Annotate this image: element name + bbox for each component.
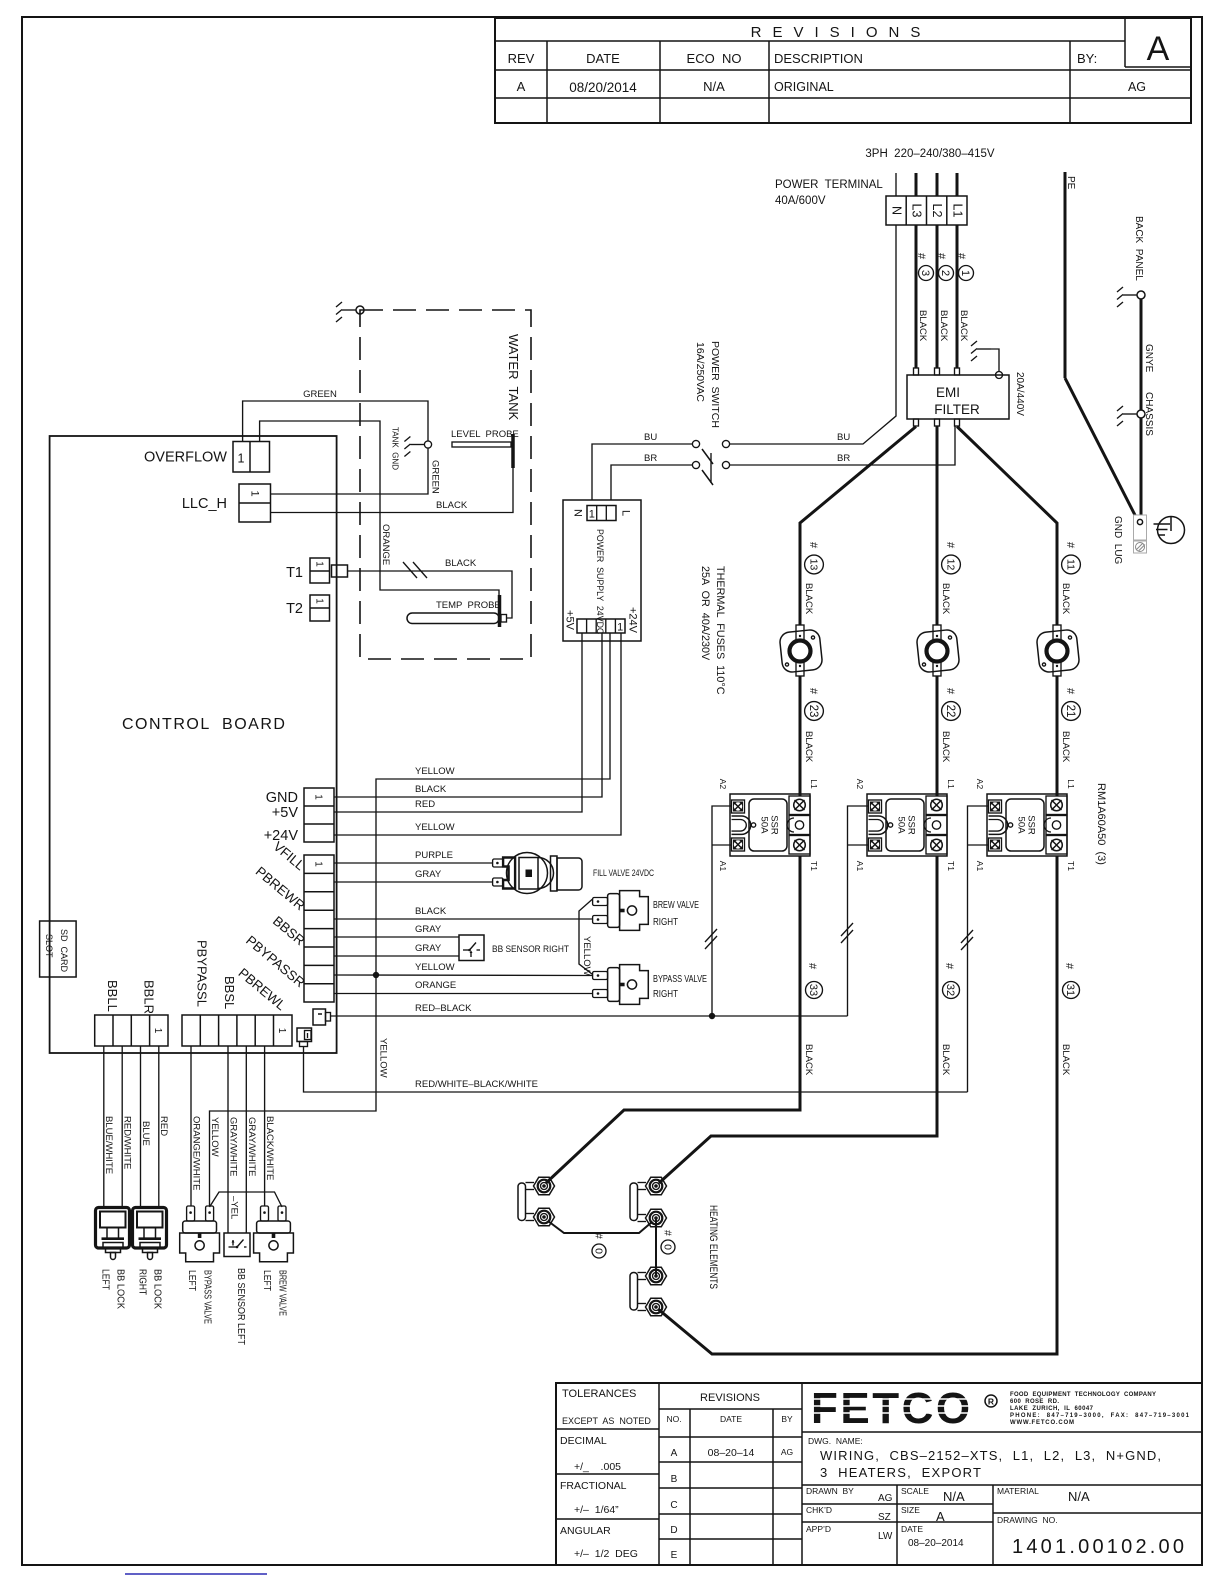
label YELLOW ps1 <box>415 766 455 777</box>
wire ORANGE/WHITE pbypassl <box>190 1046 192 1206</box>
svg-text:BLACK: BLACK <box>803 1044 814 1076</box>
wire element2 to element3 <box>655 1218 657 1276</box>
svg-text:3PH 220–240/380–415V: 3PH 220–240/380–415V <box>865 148 994 160</box>
wire yellow trapezoid jumper left valves <box>209 1192 282 1207</box>
heating element 3 <box>630 1267 667 1316</box>
gnd lug <box>1134 515 1147 553</box>
wire GREEN tank gnd to LLC_H <box>271 448 429 494</box>
wire YELLOW pbypassr to bypass valve right <box>334 974 593 977</box>
svg-text:WATER TANK: WATER TANK <box>506 334 521 421</box>
svg-text:#: # <box>807 688 819 695</box>
svg-text:A: A <box>1147 30 1170 68</box>
chassis ground symbol <box>1117 406 1137 426</box>
svg-text:LEFT: LEFT <box>99 1269 111 1290</box>
power switch S1 <box>692 440 729 485</box>
wire break marks SSR2 jumper <box>841 923 853 943</box>
heating element 2 <box>630 1177 667 1227</box>
svg-text:A: A <box>517 79 526 94</box>
svg-text:FETCO: FETCO <box>811 1384 973 1433</box>
wire SSR3 A2-A1 jumper down to red/white wire <box>967 806 988 1092</box>
wire number tag 31 <box>1060 963 1080 1076</box>
svg-text:YELLOW: YELLOW <box>377 1038 388 1078</box>
svg-text:BLACK: BLACK <box>1060 731 1071 763</box>
wire L2 incoming <box>936 173 939 196</box>
svg-text:RIGHT: RIGHT <box>653 988 678 1000</box>
connector LLC_H <box>239 484 271 522</box>
svg-text:+5V: +5V <box>564 610 576 631</box>
svg-text:BLACK: BLACK <box>1060 1044 1071 1076</box>
svg-text:BLACK: BLACK <box>958 310 969 342</box>
svg-text:REV: REV <box>508 51 535 66</box>
svg-text:SLOT: SLOT <box>44 934 54 958</box>
svg-text:1: 1 <box>276 1028 287 1034</box>
svg-text:DATE: DATE <box>586 51 620 66</box>
solenoid BB LOCK LEFT <box>95 1207 129 1259</box>
svg-text:DWG. NAME:: DWG. NAME: <box>808 1436 863 1446</box>
wire BU switch to power supply <box>592 444 692 500</box>
brew valve right <box>593 891 649 931</box>
wire break marks SSR3 jumper <box>961 930 973 950</box>
label BLACK/WHITE <box>264 1116 275 1180</box>
wire YELLOW brew to bypass jumper <box>579 899 593 975</box>
label GRAY bbsr1 <box>415 924 442 935</box>
label YELLOW jumper <box>581 936 592 976</box>
svg-text:DESCRIPTION: DESCRIPTION <box>774 51 863 66</box>
power supply U3 <box>563 500 641 641</box>
svg-text:3: 3 <box>919 270 931 276</box>
svg-text:RED/WHITE: RED/WHITE <box>121 1116 132 1169</box>
svg-text:TEMP PROBE: TEMP PROBE <box>436 600 501 611</box>
wire fuse 11 to SSR3 L1 <box>1056 676 1059 796</box>
svg-text:N/A: N/A <box>703 79 725 94</box>
wire number tag 13 <box>803 542 823 615</box>
label BLUE <box>140 1121 151 1146</box>
wire number tag 11 <box>1060 542 1080 615</box>
wire SSR3 T1 to heating element 3 <box>658 856 1057 1354</box>
svg-text:REVISIONS: REVISIONS <box>751 24 932 41</box>
svg-text:1: 1 <box>249 490 261 496</box>
svg-text:T2: T2 <box>286 601 303 617</box>
label BBSR <box>270 913 308 948</box>
svg-text:12: 12 <box>945 559 957 571</box>
wire RED/WHITE bbll <box>121 1046 123 1208</box>
svg-text:MATERIAL: MATERIAL <box>997 1486 1039 1496</box>
svg-text:GRAY: GRAY <box>415 943 442 954</box>
svg-text:0: 0 <box>592 1248 604 1254</box>
EMI chassis ground symbol <box>971 341 991 361</box>
svg-text:1: 1 <box>589 508 595 520</box>
wire BLUE/WHITE bbll <box>103 1046 105 1208</box>
wire SSR2 A2-A1 jumper down to red-black wire <box>847 806 868 1016</box>
svg-text:#: # <box>915 253 927 260</box>
connector VFILL..PBYPASSR 8 pos <box>304 855 334 1002</box>
svg-text:ECO NO: ECO NO <box>687 51 742 66</box>
wire chassis to gnd lug <box>1140 418 1143 519</box>
svg-text:BB LOCK: BB LOCK <box>114 1269 126 1309</box>
wire EMI to thermal fuse 11 <box>957 427 1057 626</box>
svg-text:TANK GND: TANK GND <box>391 427 400 470</box>
label BB LOCK LEFT <box>99 1269 126 1309</box>
svg-text:YELLOW: YELLOW <box>209 1117 220 1157</box>
svg-text:ANGULAR: ANGULAR <box>560 1525 611 1537</box>
label WATER TANK <box>506 334 521 421</box>
svg-text:23: 23 <box>807 705 819 718</box>
temp probe <box>407 595 507 627</box>
svg-text:EMI: EMI <box>936 385 960 400</box>
label CHASSIS <box>1143 392 1154 436</box>
label POWER TERMINAL 40A/600V <box>775 179 883 207</box>
label GND LUG <box>1112 516 1123 565</box>
wire GRAY/WHITE bbsl 2 <box>245 1046 247 1233</box>
label GRAY/WHITE 1 <box>227 1117 238 1176</box>
svg-text:BREW VALVE: BREW VALVE <box>276 1270 288 1316</box>
svg-text:08/20/2014: 08/20/2014 <box>569 80 637 95</box>
wire GRAY bbsr 1 <box>334 936 459 938</box>
svg-text:SIZE: SIZE <box>901 1505 920 1515</box>
svg-text:BR: BR <box>837 453 850 464</box>
label YELLOW bypass <box>415 962 455 973</box>
back panel ground symbol <box>1117 287 1137 307</box>
SD card slot <box>40 921 77 977</box>
level probe <box>452 434 513 468</box>
wire EMI to thermal fuse 13 <box>800 427 916 626</box>
svg-text:#: # <box>1064 542 1076 549</box>
wire SSR2 T1 to heating element 2 <box>659 856 937 1183</box>
SSR U5 RM1A60A50 <box>855 779 956 872</box>
label T2 <box>286 601 303 617</box>
label BB SENSOR LEFT <box>235 1268 247 1345</box>
label BLACK level probe <box>436 500 468 511</box>
label POWER SWITCH 16A/250VAC <box>694 341 721 428</box>
svg-text:GRAY/WHITE: GRAY/WHITE <box>246 1117 257 1176</box>
svg-text:BBLL: BBLL <box>105 980 120 1012</box>
svg-text:YELLOW: YELLOW <box>415 822 455 833</box>
wire fuse 12 to SSR2 L1 <box>936 676 939 796</box>
svg-text:GND: GND <box>266 790 298 806</box>
svg-text:#: # <box>1064 688 1076 695</box>
title block <box>556 1383 1202 1565</box>
wire BR switch to power supply <box>611 465 692 500</box>
svg-text:LEFT: LEFT <box>261 1270 273 1291</box>
back panel terminal circle <box>1137 291 1145 299</box>
svg-text:BLUE/WHITE: BLUE/WHITE <box>103 1116 114 1174</box>
connector T2 <box>310 595 330 621</box>
svg-text:BLACK: BLACK <box>917 310 928 342</box>
svg-text:YELLOW: YELLOW <box>415 766 455 777</box>
svg-text:RED: RED <box>415 799 435 810</box>
svg-text:33: 33 <box>807 984 819 996</box>
label BYPASS VALVE LEFT <box>186 1270 214 1324</box>
svg-text:11: 11 <box>1065 559 1077 570</box>
protective earth symbol <box>1154 517 1185 544</box>
wire PE vertical <box>1064 172 1067 378</box>
svg-text:BU: BU <box>644 432 657 443</box>
svg-text:+24V: +24V <box>627 607 639 634</box>
label FILL VALVE 24VDC <box>593 868 654 879</box>
label BLACK brew <box>415 906 447 917</box>
wire break marks T1 wire <box>403 562 427 578</box>
svg-text:FILTER: FILTER <box>934 402 980 417</box>
svg-text:FRACTIONAL: FRACTIONAL <box>560 1480 627 1492</box>
svg-text:BLACK: BLACK <box>445 558 477 569</box>
wire number tag 1 <box>955 253 974 281</box>
wire BLACK pbrewr to brew valve right <box>334 918 593 920</box>
dwg name block <box>806 1436 1184 1558</box>
label BREW VALVE RIGHT <box>653 899 699 928</box>
label YELLOW left valve <box>209 1117 220 1157</box>
svg-text:DRAWN BY: DRAWN BY <box>806 1486 854 1496</box>
svg-text:32: 32 <box>944 984 956 996</box>
svg-text:AG: AG <box>878 1493 893 1504</box>
BB sensor left <box>224 1233 250 1257</box>
wire N incoming <box>895 173 897 196</box>
wire L3 terminal to EMI filter <box>915 225 918 368</box>
wire GRAY bbsr 2 <box>334 955 459 957</box>
connector GND +5V +24V <box>304 788 334 842</box>
svg-text:#: # <box>935 253 947 260</box>
label OVERFLOW <box>144 449 227 465</box>
svg-text:REVISIONS: REVISIONS <box>700 1392 760 1404</box>
label 3PH 220-240/380-415V <box>865 148 994 160</box>
svg-text:#: # <box>944 542 956 549</box>
svg-text:BLACK: BLACK <box>1060 583 1071 615</box>
svg-text:A: A <box>671 1448 678 1459</box>
FETCO logo <box>808 1384 997 1433</box>
label PBYPASSL <box>194 940 209 1007</box>
wire BU switch to EMI <box>730 225 896 444</box>
wire L1 incoming <box>956 173 959 196</box>
label BREW VALVE LEFT <box>261 1270 289 1316</box>
wire GREEN overflow to tank gnd <box>243 401 428 442</box>
wire number tag 0 left <box>592 1233 606 1258</box>
svg-text:GREEN: GREEN <box>303 389 337 400</box>
svg-text:APP’D: APP’D <box>806 1524 831 1534</box>
label BBSL <box>222 976 237 1009</box>
wire break marks SSR1 jumper <box>705 929 717 949</box>
label BACK PANEL <box>1133 216 1144 281</box>
svg-text:THERMAL FUSES 110°C: THERMAL FUSES 110°C <box>714 566 726 695</box>
wire ORANGE to bypass valve right <box>334 992 593 994</box>
svg-text:22: 22 <box>944 705 956 718</box>
svg-text:SCALE: SCALE <box>901 1486 929 1496</box>
svg-text:BBLR: BBLR <box>141 980 156 1014</box>
wire RED bblr <box>158 1046 160 1208</box>
svg-text:GRAY: GRAY <box>415 869 442 880</box>
svg-text:#: # <box>943 963 955 970</box>
svg-text:TOLERANCES: TOLERANCES <box>562 1388 636 1400</box>
label BBLL <box>105 980 120 1012</box>
svg-text:+/– 1/2 DEG: +/– 1/2 DEG <box>574 1548 638 1560</box>
label LEVEL PROBE <box>451 429 519 440</box>
svg-text:BY: BY <box>781 1414 793 1424</box>
label GRAY fill <box>415 869 442 880</box>
svg-text:BLACK: BLACK <box>940 731 951 763</box>
svg-text:1: 1 <box>959 270 971 276</box>
svg-text:BY:: BY: <box>1077 51 1097 66</box>
svg-text:CHASSIS: CHASSIS <box>1143 392 1154 436</box>
svg-text:GREEN: GREEN <box>430 460 441 494</box>
label THERMAL FUSES 110C 25A OR 40A/230V <box>699 566 726 695</box>
svg-text:3 HEATERS, EXPORT: 3 HEATERS, EXPORT <box>820 1465 981 1480</box>
svg-text:L: L <box>620 510 632 516</box>
svg-text:20A/440V: 20A/440V <box>1014 372 1025 416</box>
svg-text:08–20–2014: 08–20–2014 <box>908 1538 964 1549</box>
svg-text:RED: RED <box>158 1116 169 1136</box>
label -YEL <box>228 1196 239 1219</box>
svg-text:#: # <box>661 1230 673 1236</box>
heating element 1 <box>518 1177 555 1226</box>
wire number tag 2 <box>935 253 954 281</box>
svg-text:GRAY: GRAY <box>415 924 442 935</box>
svg-text:BLACK: BLACK <box>940 583 951 615</box>
svg-text:WIRING, CBS–2152–XTS, L1, L: WIRING, CBS–2152–XTS, L1, L2, L3, N+GND, <box>820 1448 1161 1463</box>
svg-text:BU: BU <box>837 432 850 443</box>
svg-text:RED–BLACK: RED–BLACK <box>415 1003 472 1014</box>
wire PE diagonal to gnd lug <box>1065 378 1138 521</box>
svg-text:1: 1 <box>617 622 623 634</box>
wire number tag 23 <box>803 688 823 763</box>
svg-text:R: R <box>988 1397 994 1407</box>
svg-text:BB SENSOR LEFT: BB SENSOR LEFT <box>235 1268 247 1345</box>
svg-text:SD CARD: SD CARD <box>59 929 69 973</box>
label BU right <box>837 432 850 443</box>
svg-text:D: D <box>670 1525 677 1536</box>
svg-text:#: # <box>592 1233 604 1239</box>
label PBYPASSR <box>243 933 308 991</box>
svg-text:AG: AG <box>781 1447 793 1457</box>
control board outline <box>50 436 337 1053</box>
wire EMI to thermal fuse 12 <box>936 427 939 625</box>
wire RED +5v to power supply <box>334 633 582 812</box>
label GRAY/WHITE 2 <box>246 1117 257 1176</box>
svg-text:25A OR 40A/230V: 25A OR 40A/230V <box>699 566 711 661</box>
svg-text:A: A <box>936 1509 945 1524</box>
svg-text:08–20–14: 08–20–14 <box>708 1447 755 1459</box>
svg-text:BLACK: BLACK <box>415 784 447 795</box>
label TEMP PROBE <box>436 600 501 611</box>
label BLACK T1 wire <box>445 558 477 569</box>
label RM1A60A50 (3) <box>1095 783 1107 865</box>
label BLUE/WHITE <box>103 1116 114 1174</box>
svg-text:PURPLE: PURPLE <box>415 850 453 861</box>
wire SSR1 T1 to heating element 1 <box>546 856 800 1183</box>
wire RED-BLACK to SSR nodes <box>330 1015 847 1017</box>
svg-text:L3: L3 <box>910 204 924 218</box>
label PURPLE <box>415 850 453 861</box>
bypass valve left <box>180 1206 220 1262</box>
label PBREWR <box>253 864 308 914</box>
label BLACK ps <box>415 784 447 795</box>
svg-text:E: E <box>671 1550 678 1561</box>
wire L1 terminal to EMI filter <box>956 225 959 368</box>
svg-text:BLACK/WHITE: BLACK/WHITE <box>264 1116 275 1180</box>
label +24V <box>264 828 299 844</box>
svg-text:1: 1 <box>238 451 245 465</box>
chassis terminal circle <box>1137 410 1145 418</box>
label CONTROL BOARD <box>122 716 286 733</box>
label VFILL <box>270 839 308 874</box>
tank gnd terminal circle <box>424 441 431 448</box>
wire BLACK level probe to LLC_H <box>271 468 514 513</box>
wire BLUE bblr <box>139 1046 141 1208</box>
wire L3 incoming <box>915 173 918 196</box>
svg-text:N: N <box>890 206 904 215</box>
label GND <box>266 790 298 806</box>
label RED-BLACK <box>415 1003 472 1014</box>
thermal fuse F12 <box>916 625 960 676</box>
svg-text:YELLOW: YELLOW <box>581 936 592 976</box>
connector PBYPASSL BBSL PBREWL 6 pos <box>182 1015 292 1046</box>
wire number tag 21 <box>1060 688 1080 763</box>
wire GNYE back panel to chassis <box>1140 299 1143 410</box>
connector red/white small plug <box>297 1028 312 1047</box>
label BLACK wire L1 <box>958 310 969 342</box>
tank top ground terminal circle <box>356 306 364 314</box>
label GREEN vertical <box>430 460 441 494</box>
wire number tag 0 right <box>661 1230 675 1254</box>
connector BBLL BBLR 4 pos <box>95 1015 168 1046</box>
svg-text:N: N <box>572 509 584 517</box>
svg-text:BYPASS VALVE: BYPASS VALVE <box>653 973 707 985</box>
label ORANGE <box>380 524 391 565</box>
company info block <box>1010 1392 1190 1426</box>
connector T1 <box>310 558 348 583</box>
svg-text:31: 31 <box>1064 984 1076 996</box>
svg-text:L2: L2 <box>930 204 944 218</box>
wire BR switch to EMI <box>730 427 955 466</box>
wire number tag 33 <box>803 963 823 1076</box>
svg-text:POWER TERMINAL: POWER TERMINAL <box>775 179 883 191</box>
wire SSR1 A2-A1 jumper down to red-black node <box>712 806 732 1016</box>
label BB LOCK RIGHT <box>136 1269 163 1309</box>
wire number tag 32 <box>940 963 960 1076</box>
svg-text:LEVEL PROBE: LEVEL PROBE <box>451 429 519 440</box>
svg-text:1: 1 <box>152 1028 163 1034</box>
wire number tag 12 <box>940 542 960 615</box>
svg-text:BACK PANEL: BACK PANEL <box>1133 216 1144 281</box>
solenoid BB LOCK RIGHT <box>132 1207 166 1259</box>
svg-text:ORANGE/WHITE: ORANGE/WHITE <box>190 1116 201 1190</box>
BB sensor right <box>459 935 484 961</box>
label HEATING ELEMENTS <box>707 1205 719 1289</box>
wire GRAY/WHITE bbsl 1 <box>227 1046 229 1233</box>
svg-text:LEFT: LEFT <box>186 1270 198 1291</box>
label BU left <box>644 432 657 443</box>
svg-text:RM1A60A50 (3): RM1A60A50 (3) <box>1095 783 1107 865</box>
svg-text:LAKE ZURICH, IL 60047: LAKE ZURICH, IL 60047 <box>1010 1406 1094 1412</box>
junction node yellow <box>373 972 379 978</box>
svg-text:FILL VALVE 24VDC: FILL VALVE 24VDC <box>593 868 654 879</box>
svg-text:YELLOW: YELLOW <box>415 962 455 973</box>
wire element1 to element2 neutral jumper <box>548 1221 653 1233</box>
svg-text:OVERFLOW: OVERFLOW <box>144 449 227 465</box>
label BR right <box>837 453 850 464</box>
wire YELLOW common down left <box>209 975 376 1206</box>
svg-text:PHONE: 847–719–3000, FAX: 8: PHONE: 847–719–3000, FAX: 847–719–3001 <box>1010 1413 1190 1419</box>
label GRAY bbsr2 <box>415 943 442 954</box>
svg-text:600 ROSE RD.: 600 ROSE RD. <box>1010 1399 1059 1405</box>
svg-text:T1: T1 <box>286 565 303 581</box>
water tank dashed boundary <box>360 310 531 659</box>
svg-text:PBYPASSL: PBYPASSL <box>194 940 209 1007</box>
svg-text:+/– 1/64”: +/– 1/64” <box>574 1504 619 1516</box>
label BLACK wire L2 <box>938 310 949 342</box>
wire GRAY to fill valve <box>334 881 493 883</box>
svg-text:BB SENSOR RIGHT: BB SENSOR RIGHT <box>492 944 569 955</box>
svg-text:RIGHT: RIGHT <box>653 916 678 928</box>
label PE <box>1065 176 1076 190</box>
svg-text:HEATING ELEMENTS: HEATING ELEMENTS <box>707 1205 719 1289</box>
